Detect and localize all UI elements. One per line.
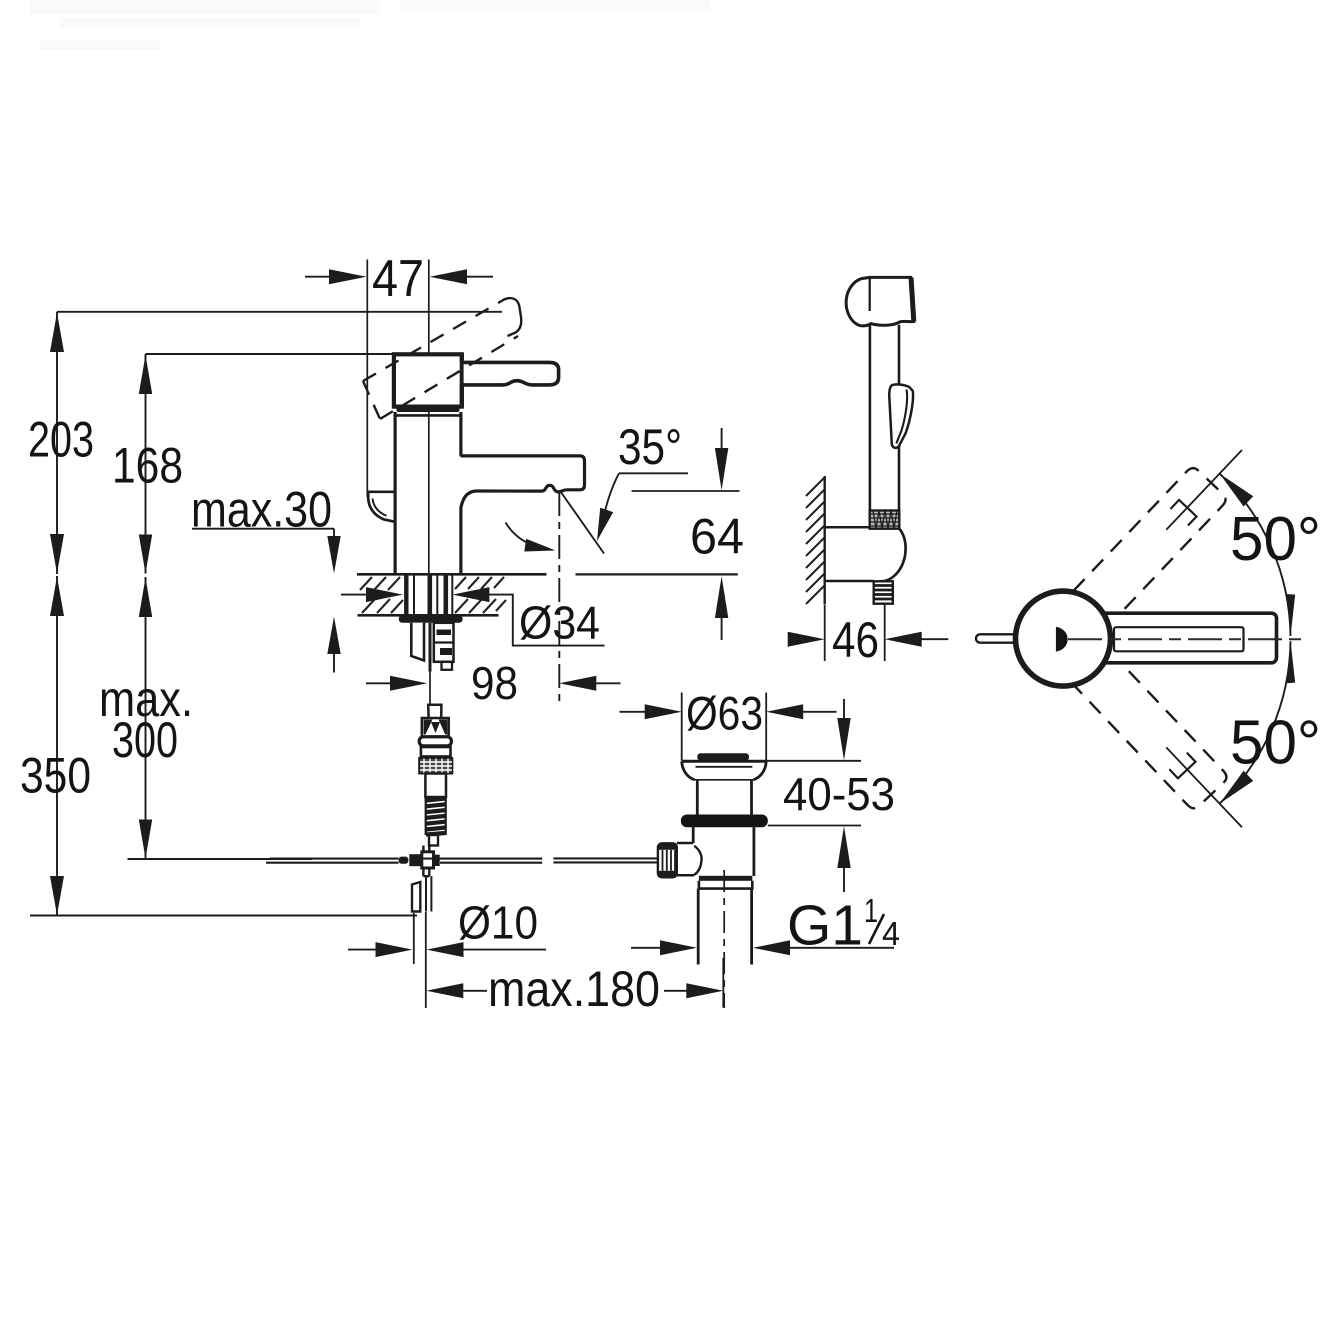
hose collar bbox=[419, 737, 451, 746]
pop-up rod cross fitting bbox=[422, 846, 424, 852]
pop-up waste O-ring bbox=[681, 815, 768, 828]
svg-text:50°: 50° bbox=[1230, 709, 1321, 778]
hose spring coil bbox=[426, 799, 446, 835]
dimension 168 extension vertical bbox=[145, 354, 147, 574]
hose ring bbox=[421, 747, 451, 757]
pop-up waste flange bbox=[682, 760, 767, 763]
pop-up waste body bbox=[692, 827, 695, 843]
faucet lever solid bbox=[462, 362, 559, 385]
top view: dashed lever down 50deg bbox=[1074, 652, 1260, 844]
faucet body right edge upper bbox=[459, 412, 462, 457]
top view: cartridge D mark bbox=[1056, 627, 1068, 652]
extension line 47 left bbox=[366, 260, 368, 498]
dimension max300 bottom reference bbox=[128, 858, 313, 860]
hose lower tube bbox=[429, 835, 438, 846]
hose upper tube bbox=[425, 774, 446, 798]
faucet body right edge lower bbox=[459, 507, 462, 574]
counter top line left bbox=[357, 573, 547, 576]
tailpipe axis dash-dot bbox=[723, 870, 725, 1008]
svg-text:40-53: 40-53 bbox=[783, 768, 895, 820]
counter top line right bbox=[576, 573, 738, 575]
arrows max300 bbox=[139, 578, 152, 618]
svg-text:64: 64 bbox=[690, 509, 744, 565]
arrows 350 bbox=[50, 577, 64, 617]
dimension 168 reference line bbox=[146, 353, 394, 355]
mounting nut under counter bbox=[399, 615, 463, 623]
faucet base flange hook bbox=[368, 492, 395, 522]
faucet body left edge bbox=[394, 412, 397, 574]
hose knurled nut bbox=[419, 758, 452, 774]
arrows 168 bbox=[139, 355, 152, 394]
bracket outlet threads bbox=[874, 581, 893, 603]
pop-up knurled knob bbox=[658, 843, 677, 877]
hand shower knurled inlet bbox=[870, 511, 900, 529]
pop-up rod horizontal bbox=[270, 858, 399, 860]
faucet shank through counter bbox=[406, 574, 452, 615]
dimension 350 reference line bottom bbox=[30, 915, 417, 917]
faucet neck line bbox=[395, 414, 461, 417]
spout axis dash-dot bbox=[558, 492, 560, 702]
svg-text:4: 4 bbox=[882, 915, 900, 952]
svg-text:168: 168 bbox=[112, 438, 183, 494]
wall bracket elbow bbox=[825, 526, 869, 529]
svg-text:max.180: max.180 bbox=[488, 961, 660, 1017]
dashed lever tip cap bbox=[504, 298, 521, 336]
swivel arc with arrow bbox=[506, 523, 550, 550]
dimension 203 extension vertical bbox=[56, 312, 58, 574]
arrows 203 bbox=[50, 313, 152, 916]
wall line bbox=[824, 476, 826, 605]
svg-text:47: 47 bbox=[372, 250, 424, 308]
svg-text:350: 350 bbox=[20, 748, 91, 804]
dimension 98 bbox=[366, 682, 394, 684]
vertical rod plate below cross bbox=[412, 882, 420, 912]
faucet spout bbox=[461, 456, 585, 508]
svg-text:50°: 50° bbox=[1230, 505, 1321, 574]
hose block with V mark bbox=[422, 718, 449, 737]
svg-text:46: 46 bbox=[832, 612, 879, 668]
dimension 350 extension vertical bbox=[56, 576, 58, 916]
top view: dashed lever up 50deg bbox=[1074, 433, 1260, 625]
wall hatching bbox=[806, 478, 824, 604]
svg-text:G1: G1 bbox=[787, 894, 863, 958]
faucet box right edge restroke bbox=[460, 354, 464, 362]
pop-up tee branch bbox=[677, 842, 693, 845]
50deg arc upper bbox=[1220, 474, 1291, 636]
rod extension lines bbox=[413, 913, 415, 964]
top view: center line bbox=[1068, 638, 1303, 640]
pop-up lower stop ring bbox=[699, 876, 752, 881]
svg-text:Ø63: Ø63 bbox=[686, 687, 763, 740]
hand shower head bbox=[846, 277, 914, 325]
top view: lever horizontal bbox=[1100, 613, 1277, 663]
dimension Ø63 bbox=[620, 711, 650, 713]
faucet axis below counter bbox=[429, 672, 431, 705]
svg-text:98: 98 bbox=[471, 657, 518, 709]
dimension Ø10 bbox=[348, 949, 379, 951]
dimension 46 bbox=[824, 605, 826, 661]
dimension 40-53 bbox=[766, 760, 861, 762]
dimension G1 1/4 bbox=[631, 947, 664, 949]
dimension max.180 bbox=[426, 983, 463, 998]
top view: faucet body circle bbox=[1016, 591, 1111, 686]
pop-up tailpipe bbox=[697, 889, 700, 965]
svg-text:35°: 35° bbox=[618, 419, 682, 475]
svg-text:1: 1 bbox=[864, 892, 878, 929]
under-counter fitting bbox=[434, 623, 454, 670]
pop-up waste neck bbox=[696, 780, 699, 815]
under-counter center rod bbox=[429, 623, 432, 672]
svg-text:203: 203 bbox=[28, 412, 94, 468]
hand shower trigger bbox=[889, 384, 913, 447]
extension lines Ø63 bbox=[681, 693, 683, 761]
pop-up waste cap bbox=[697, 753, 749, 760]
dimension 64 bbox=[632, 490, 740, 492]
extension line 47 right / faucet axis bbox=[428, 260, 430, 574]
faucet lever dashed (raised position) bbox=[363, 299, 518, 419]
dimension max300 extension vertical bbox=[145, 577, 147, 859]
hand shower handle bbox=[869, 325, 872, 511]
faucet cartridge box bbox=[394, 354, 462, 406]
faucet neck dark band bbox=[397, 407, 460, 412]
flexible hose connector tube bbox=[428, 705, 441, 718]
spout jet axis 35deg line bbox=[561, 492, 605, 554]
under-counter left plate bbox=[411, 623, 424, 661]
50deg arc lower bbox=[1220, 641, 1291, 803]
dimension 203 reference line top bbox=[57, 311, 502, 313]
dimension arrows shank width (Ø34) bbox=[341, 594, 370, 596]
faint watermark top-left bbox=[30, 0, 710, 50]
top view: left stub bbox=[976, 634, 1020, 642]
svg-text:300: 300 bbox=[112, 712, 178, 768]
counter hatching bbox=[360, 577, 506, 613]
counter bottom line bbox=[358, 614, 499, 617]
svg-text:Ø10: Ø10 bbox=[458, 897, 538, 949]
